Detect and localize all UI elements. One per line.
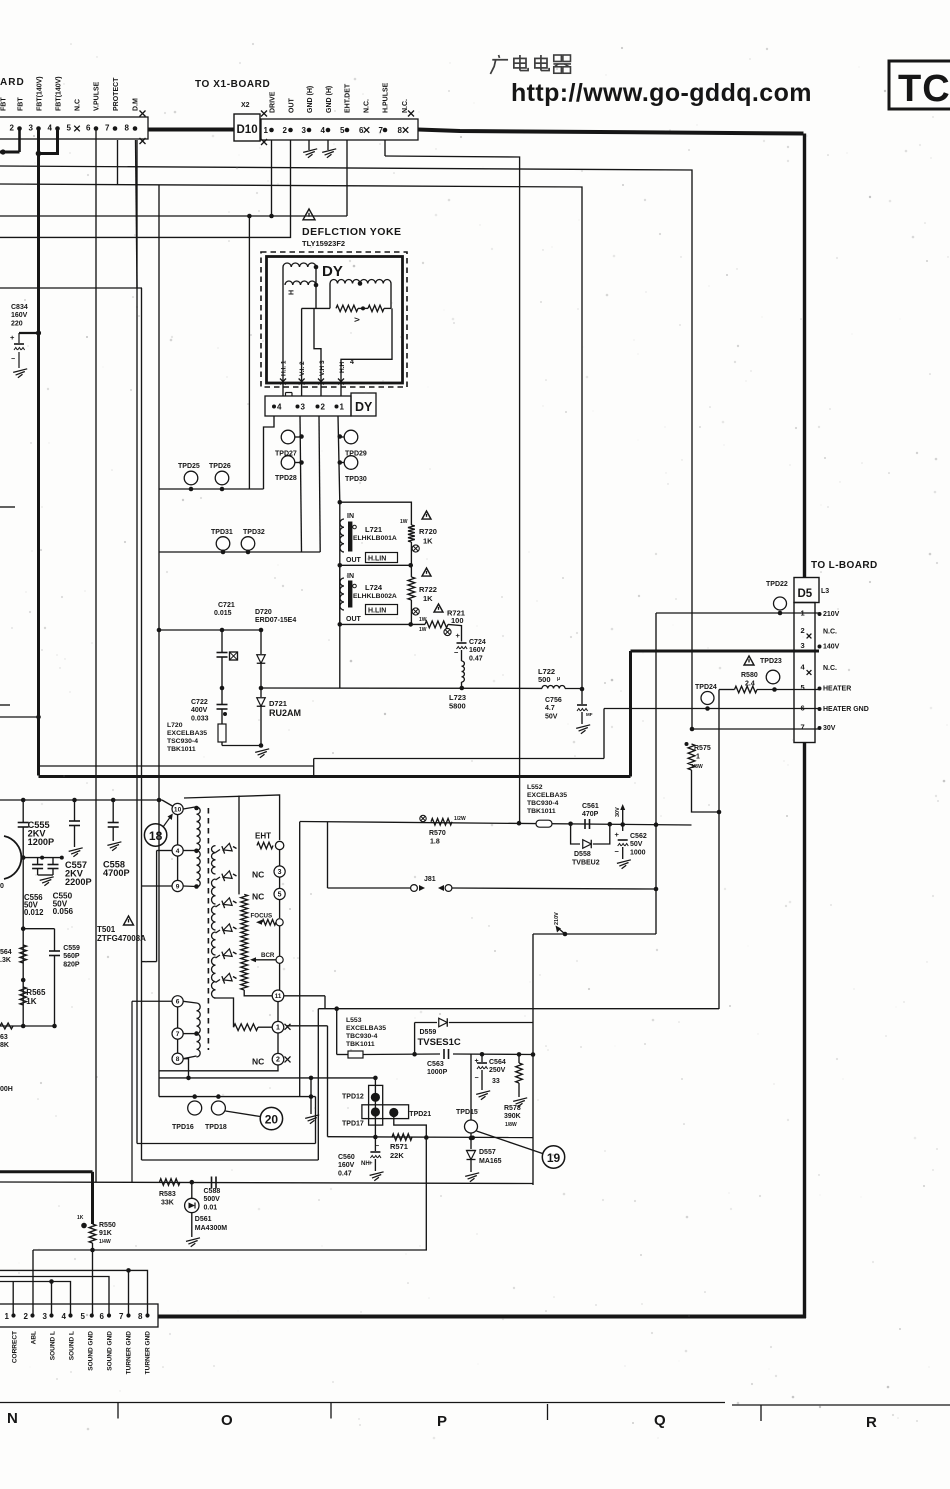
svg-text:V: V	[355, 317, 362, 322]
svg-text:1: 1	[5, 1312, 10, 1321]
svg-text:N: N	[7, 1410, 18, 1427]
svg-text:C564: C564	[489, 1059, 506, 1066]
svg-text:11: 11	[275, 993, 282, 1000]
svg-text:ZTFG47008A: ZTFG47008A	[97, 934, 146, 943]
svg-text:DRIVE: DRIVE	[270, 91, 277, 113]
svg-text:6: 6	[176, 999, 180, 1006]
svg-text:50V: 50V	[545, 713, 558, 720]
svg-text:6: 6	[86, 124, 91, 133]
svg-text:4: 4	[48, 124, 53, 133]
svg-text:R720: R720	[419, 527, 437, 536]
svg-text:TPD22: TPD22	[766, 581, 788, 588]
svg-text:3: 3	[301, 403, 306, 412]
svg-text:250V: 250V	[489, 1067, 506, 1074]
svg-text:C721: C721	[218, 602, 235, 609]
svg-text:N.C.: N.C.	[823, 665, 837, 672]
svg-text:R722: R722	[419, 585, 437, 594]
svg-text:C722: C722	[191, 699, 208, 706]
svg-text:FBT(140V): FBT(140V)	[37, 76, 44, 111]
svg-text:TLY15923F2: TLY15923F2	[302, 239, 345, 248]
svg-text:D561: D561	[195, 1216, 212, 1223]
svg-text:SOUND L: SOUND L	[50, 1331, 57, 1360]
svg-text:L552: L552	[527, 784, 543, 791]
svg-text:TBK1011: TBK1011	[527, 808, 556, 815]
svg-text:TSC930-4: TSC930-4	[167, 738, 198, 745]
svg-text:C559: C559	[63, 945, 80, 952]
svg-text:TPD23: TPD23	[760, 658, 782, 665]
svg-text:2: 2	[276, 1057, 280, 1064]
svg-text:390K: 390K	[504, 1113, 521, 1120]
svg-text:V.I. 2: V.I. 2	[299, 361, 306, 376]
svg-text:500V: 500V	[204, 1196, 221, 1203]
svg-text:EHT: EHT	[255, 832, 271, 841]
svg-text:50V: 50V	[630, 841, 643, 848]
svg-text:18: 18	[149, 829, 163, 843]
svg-text:4.7: 4.7	[545, 705, 555, 712]
svg-text:7: 7	[119, 1312, 124, 1321]
svg-text:2: 2	[24, 1312, 29, 1321]
svg-text:210V: 210V	[554, 912, 560, 925]
svg-text:OUT: OUT	[346, 616, 362, 623]
svg-text:160V: 160V	[469, 647, 486, 654]
svg-text:1.8: 1.8	[430, 839, 440, 846]
svg-text:μ: μ	[557, 676, 560, 682]
svg-text:−: −	[615, 847, 620, 856]
svg-text:TPD32: TPD32	[243, 529, 265, 536]
svg-text:9: 9	[176, 883, 180, 890]
svg-text:1W: 1W	[419, 627, 427, 633]
svg-text:564: 564	[0, 949, 12, 956]
svg-text:H.LIN: H.LIN	[368, 556, 386, 563]
svg-text:C561: C561	[582, 803, 599, 810]
svg-text:GND (H): GND (H)	[307, 86, 314, 113]
svg-text:6: 6	[359, 126, 364, 135]
svg-text:1K: 1K	[77, 1215, 84, 1221]
svg-text:RU2AM: RU2AM	[269, 708, 301, 718]
svg-text:O: O	[221, 1412, 233, 1429]
svg-text:TPD31: TPD31	[211, 529, 233, 536]
svg-text:ELHKLB002A: ELHKLB002A	[353, 593, 397, 600]
svg-text:HEATER: HEATER	[823, 686, 851, 693]
svg-text:2.4: 2.4	[745, 681, 755, 688]
svg-text:R550: R550	[99, 1222, 116, 1229]
svg-text:TPD15: TPD15	[456, 1109, 478, 1116]
svg-text:EXCELBA35: EXCELBA35	[527, 792, 567, 799]
svg-text:5: 5	[340, 126, 345, 135]
svg-text:3: 3	[801, 641, 805, 650]
svg-text:R578: R578	[504, 1105, 521, 1112]
svg-text:J81: J81	[424, 876, 436, 883]
svg-text:BCR: BCR	[261, 952, 275, 959]
svg-text:3: 3	[43, 1312, 48, 1321]
svg-text:8: 8	[125, 124, 130, 133]
svg-text:C588: C588	[204, 1188, 221, 1195]
svg-text:TBC930-4: TBC930-4	[346, 1033, 378, 1040]
svg-text:470P: 470P	[582, 811, 599, 818]
svg-text:TPD18: TPD18	[205, 1124, 227, 1131]
svg-text:N.C.: N.C.	[364, 99, 371, 113]
svg-text:V.H 3: V.H 3	[319, 360, 326, 376]
svg-text:8: 8	[176, 1056, 180, 1063]
svg-text:5: 5	[81, 1312, 86, 1321]
svg-text:8K: 8K	[0, 1042, 9, 1049]
svg-text:+: +	[10, 333, 15, 342]
svg-text:R580: R580	[741, 672, 758, 679]
svg-text:P: P	[437, 1413, 447, 1430]
svg-text:4: 4	[62, 1312, 67, 1321]
svg-text:1W: 1W	[419, 617, 427, 623]
svg-text:820P: 820P	[63, 961, 80, 968]
svg-text:C834: C834	[11, 304, 28, 311]
svg-text:4: 4	[176, 848, 180, 855]
svg-text:D720: D720	[255, 609, 272, 616]
svg-text:DY: DY	[322, 263, 343, 280]
svg-text:1/8W: 1/8W	[505, 1122, 517, 1128]
svg-text:3: 3	[278, 869, 282, 876]
svg-text:NC: NC	[252, 892, 264, 902]
svg-text:19: 19	[547, 1151, 561, 1165]
svg-text:+: +	[475, 1058, 479, 1065]
svg-text:TURNER GND: TURNER GND	[145, 1331, 152, 1375]
svg-text:D721: D721	[269, 699, 287, 708]
svg-text:TVBEU2: TVBEU2	[572, 860, 600, 867]
svg-text:0.056: 0.056	[53, 907, 74, 916]
svg-text:5800: 5800	[449, 702, 466, 711]
svg-text:FBT(140V): FBT(140V)	[56, 76, 63, 111]
svg-text:3: 3	[29, 124, 34, 133]
svg-text:00H: 00H	[0, 1086, 13, 1093]
svg-text:EHT.DET: EHT.DET	[345, 83, 352, 113]
svg-text:ERD07-15E4: ERD07-15E4	[255, 617, 296, 624]
svg-text:220: 220	[11, 320, 23, 327]
svg-text:NC: NC	[252, 1057, 264, 1067]
svg-text:TPD25: TPD25	[178, 463, 200, 470]
svg-text:1K: 1K	[423, 594, 433, 603]
svg-text:OUT: OUT	[289, 98, 296, 114]
svg-text:D558: D558	[574, 851, 591, 858]
svg-text:1: 1	[264, 126, 269, 135]
svg-text:IN: IN	[347, 573, 354, 580]
svg-text:100: 100	[451, 616, 464, 625]
svg-text:1: 1	[696, 754, 700, 761]
svg-text:MF: MF	[586, 712, 593, 717]
svg-text:91K: 91K	[99, 1230, 112, 1237]
svg-text:8: 8	[398, 126, 403, 135]
svg-text:OUT: OUT	[346, 557, 362, 564]
svg-text:R583: R583	[159, 1191, 176, 1198]
svg-text:0.033: 0.033	[191, 715, 209, 722]
svg-text:D.M: D.M	[133, 98, 140, 111]
svg-text:0: 0	[0, 883, 4, 890]
svg-text:MA4300M: MA4300M	[195, 1225, 227, 1232]
svg-text:33: 33	[492, 1078, 500, 1085]
svg-text:PROTECT: PROTECT	[113, 77, 120, 111]
svg-text:EXCELBA35: EXCELBA35	[346, 1025, 386, 1032]
svg-text:TVSES1C: TVSES1C	[418, 1037, 461, 1048]
svg-text:L3: L3	[821, 588, 829, 595]
svg-text:1/4W: 1/4W	[99, 1239, 111, 1245]
svg-text:SOUND GND: SOUND GND	[88, 1331, 95, 1371]
svg-text:R565: R565	[26, 988, 46, 997]
svg-text:5: 5	[801, 683, 805, 692]
svg-text:.3K: .3K	[0, 957, 11, 964]
svg-text:1: 1	[340, 403, 345, 412]
svg-text:TO X1-BOARD: TO X1-BOARD	[195, 79, 270, 90]
svg-text:TPD21: TPD21	[409, 1111, 431, 1118]
svg-text:TPD12: TPD12	[342, 1094, 364, 1101]
svg-text:+: +	[456, 631, 461, 640]
svg-text:TBC930-4: TBC930-4	[527, 800, 559, 807]
svg-text:500: 500	[538, 675, 551, 684]
svg-text:5: 5	[67, 124, 72, 133]
svg-text:D557: D557	[479, 1149, 496, 1156]
svg-text:MA165: MA165	[479, 1158, 502, 1165]
svg-text:1K: 1K	[26, 997, 36, 1006]
svg-text:210V: 210V	[823, 611, 840, 618]
svg-text:0.47: 0.47	[338, 1170, 352, 1177]
svg-text:TBK1011: TBK1011	[346, 1041, 375, 1048]
svg-text:H.PULSE: H.PULSE	[383, 82, 390, 113]
svg-text:5: 5	[278, 892, 282, 899]
svg-text:C560: C560	[338, 1154, 355, 1161]
svg-text:H.H: H.H	[339, 362, 346, 374]
svg-text:D559: D559	[420, 1029, 437, 1036]
svg-text:L721: L721	[365, 525, 382, 534]
svg-text:R570: R570	[429, 830, 446, 837]
svg-text:H.LIN: H.LIN	[368, 608, 386, 615]
svg-text:160V: 160V	[11, 312, 28, 319]
svg-text:L724: L724	[365, 583, 383, 592]
svg-text:0.015: 0.015	[214, 610, 232, 617]
svg-text:TPD28: TPD28	[275, 475, 297, 482]
svg-text:TURNER GND: TURNER GND	[126, 1331, 133, 1375]
svg-text:http://www.go-gddq.com: http://www.go-gddq.com	[511, 79, 812, 107]
svg-text:0.01: 0.01	[204, 1204, 218, 1211]
svg-text:30V: 30V	[823, 725, 836, 732]
svg-text:FBT: FBT	[18, 97, 25, 111]
svg-text:R575: R575	[694, 745, 711, 752]
svg-text:1/2W: 1/2W	[454, 816, 466, 822]
svg-text:V.PULSE: V.PULSE	[94, 81, 101, 111]
svg-text:4: 4	[801, 663, 806, 672]
svg-text:ELHKLB001A: ELHKLB001A	[353, 535, 397, 542]
svg-text:140V: 140V	[823, 644, 840, 651]
svg-text:1: 1	[276, 1025, 280, 1032]
svg-text:GND (H): GND (H)	[326, 86, 333, 113]
svg-text:2: 2	[801, 626, 805, 635]
svg-text:SOUND L: SOUND L	[69, 1331, 76, 1360]
svg-text:N.C.: N.C.	[823, 629, 837, 636]
svg-text:6: 6	[100, 1312, 105, 1321]
svg-text:1000: 1000	[630, 849, 646, 856]
svg-text:DY: DY	[355, 400, 373, 414]
svg-text:TPD17: TPD17	[342, 1121, 364, 1128]
svg-text:63: 63	[0, 1034, 8, 1041]
svg-text:400V: 400V	[191, 707, 208, 714]
svg-text:TPD24: TPD24	[695, 684, 717, 691]
svg-text:10: 10	[174, 806, 182, 813]
svg-text:TO L-BOARD: TO L-BOARD	[811, 560, 878, 571]
svg-text:TPD26: TPD26	[209, 463, 231, 470]
svg-text:ABL: ABL	[31, 1331, 38, 1344]
svg-text:4: 4	[277, 403, 282, 412]
svg-text:4700P: 4700P	[103, 868, 130, 878]
svg-text:+: +	[369, 1161, 373, 1167]
svg-text:Q: Q	[654, 1412, 666, 1429]
svg-text:C563: C563	[427, 1061, 444, 1068]
svg-text:IN: IN	[347, 513, 354, 520]
svg-text:C724: C724	[469, 639, 486, 646]
svg-text:1W: 1W	[400, 519, 408, 525]
svg-text:TPD16: TPD16	[172, 1124, 194, 1131]
svg-text:7: 7	[176, 1031, 180, 1038]
svg-text:160V: 160V	[338, 1162, 355, 1169]
svg-text:2: 2	[10, 124, 15, 133]
svg-text:N.C: N.C	[75, 99, 82, 111]
svg-text:EXCELBA35: EXCELBA35	[167, 730, 207, 737]
svg-text:L720: L720	[167, 722, 183, 729]
svg-text:2: 2	[321, 403, 326, 412]
svg-text:SOUND GND: SOUND GND	[107, 1331, 114, 1371]
svg-text:TC: TC	[898, 68, 950, 110]
svg-text:30V: 30V	[615, 807, 621, 817]
svg-text:T501: T501	[97, 925, 116, 934]
svg-text:7: 7	[105, 124, 110, 133]
svg-text:−: −	[475, 1075, 479, 1082]
svg-text:TBK1011: TBK1011	[167, 746, 196, 753]
svg-text:CORRECT: CORRECT	[12, 1331, 19, 1363]
svg-text:1000P: 1000P	[427, 1069, 448, 1076]
svg-text:NC: NC	[252, 870, 264, 880]
svg-text:FBT: FBT	[1, 97, 8, 111]
svg-text:R: R	[866, 1414, 877, 1431]
svg-text:2: 2	[283, 126, 288, 135]
svg-text:L553: L553	[346, 1017, 362, 1024]
svg-text:H.I. 1: H.I. 1	[281, 360, 288, 376]
svg-text:1K: 1K	[423, 537, 433, 546]
svg-text:D5: D5	[798, 588, 813, 600]
svg-text:X2: X2	[241, 102, 250, 109]
svg-text:0.47: 0.47	[469, 655, 483, 662]
svg-text:2200P: 2200P	[65, 877, 92, 887]
svg-text:4: 4	[350, 359, 354, 366]
svg-text:TPD30: TPD30	[345, 476, 367, 483]
svg-text:−: −	[454, 648, 459, 657]
svg-text:+: +	[615, 830, 620, 839]
svg-text:R571: R571	[390, 1142, 408, 1151]
svg-text:H: H	[289, 290, 296, 295]
svg-text:HEATER GND: HEATER GND	[823, 706, 869, 713]
svg-text:1200P: 1200P	[28, 837, 55, 847]
svg-text:C756: C756	[545, 697, 562, 704]
svg-text:C562: C562	[630, 833, 647, 840]
svg-text:4: 4	[321, 126, 326, 135]
svg-text:DEFLCTION YOKE: DEFLCTION YOKE	[302, 226, 402, 238]
svg-text:−: −	[11, 356, 15, 363]
svg-text:D10: D10	[237, 124, 258, 136]
svg-text:7: 7	[801, 723, 805, 732]
svg-text:1/8W: 1/8W	[691, 764, 703, 770]
svg-text:22K: 22K	[390, 1151, 404, 1160]
svg-text:560P: 560P	[63, 953, 80, 960]
svg-text:FOCUS: FOCUS	[251, 913, 273, 920]
svg-text:0.012: 0.012	[24, 908, 44, 917]
svg-text:33K: 33K	[161, 1200, 174, 1207]
svg-text:8: 8	[138, 1312, 143, 1321]
svg-text:3: 3	[302, 126, 307, 135]
svg-text:20: 20	[265, 1113, 279, 1127]
svg-text:ARD: ARD	[0, 77, 25, 88]
